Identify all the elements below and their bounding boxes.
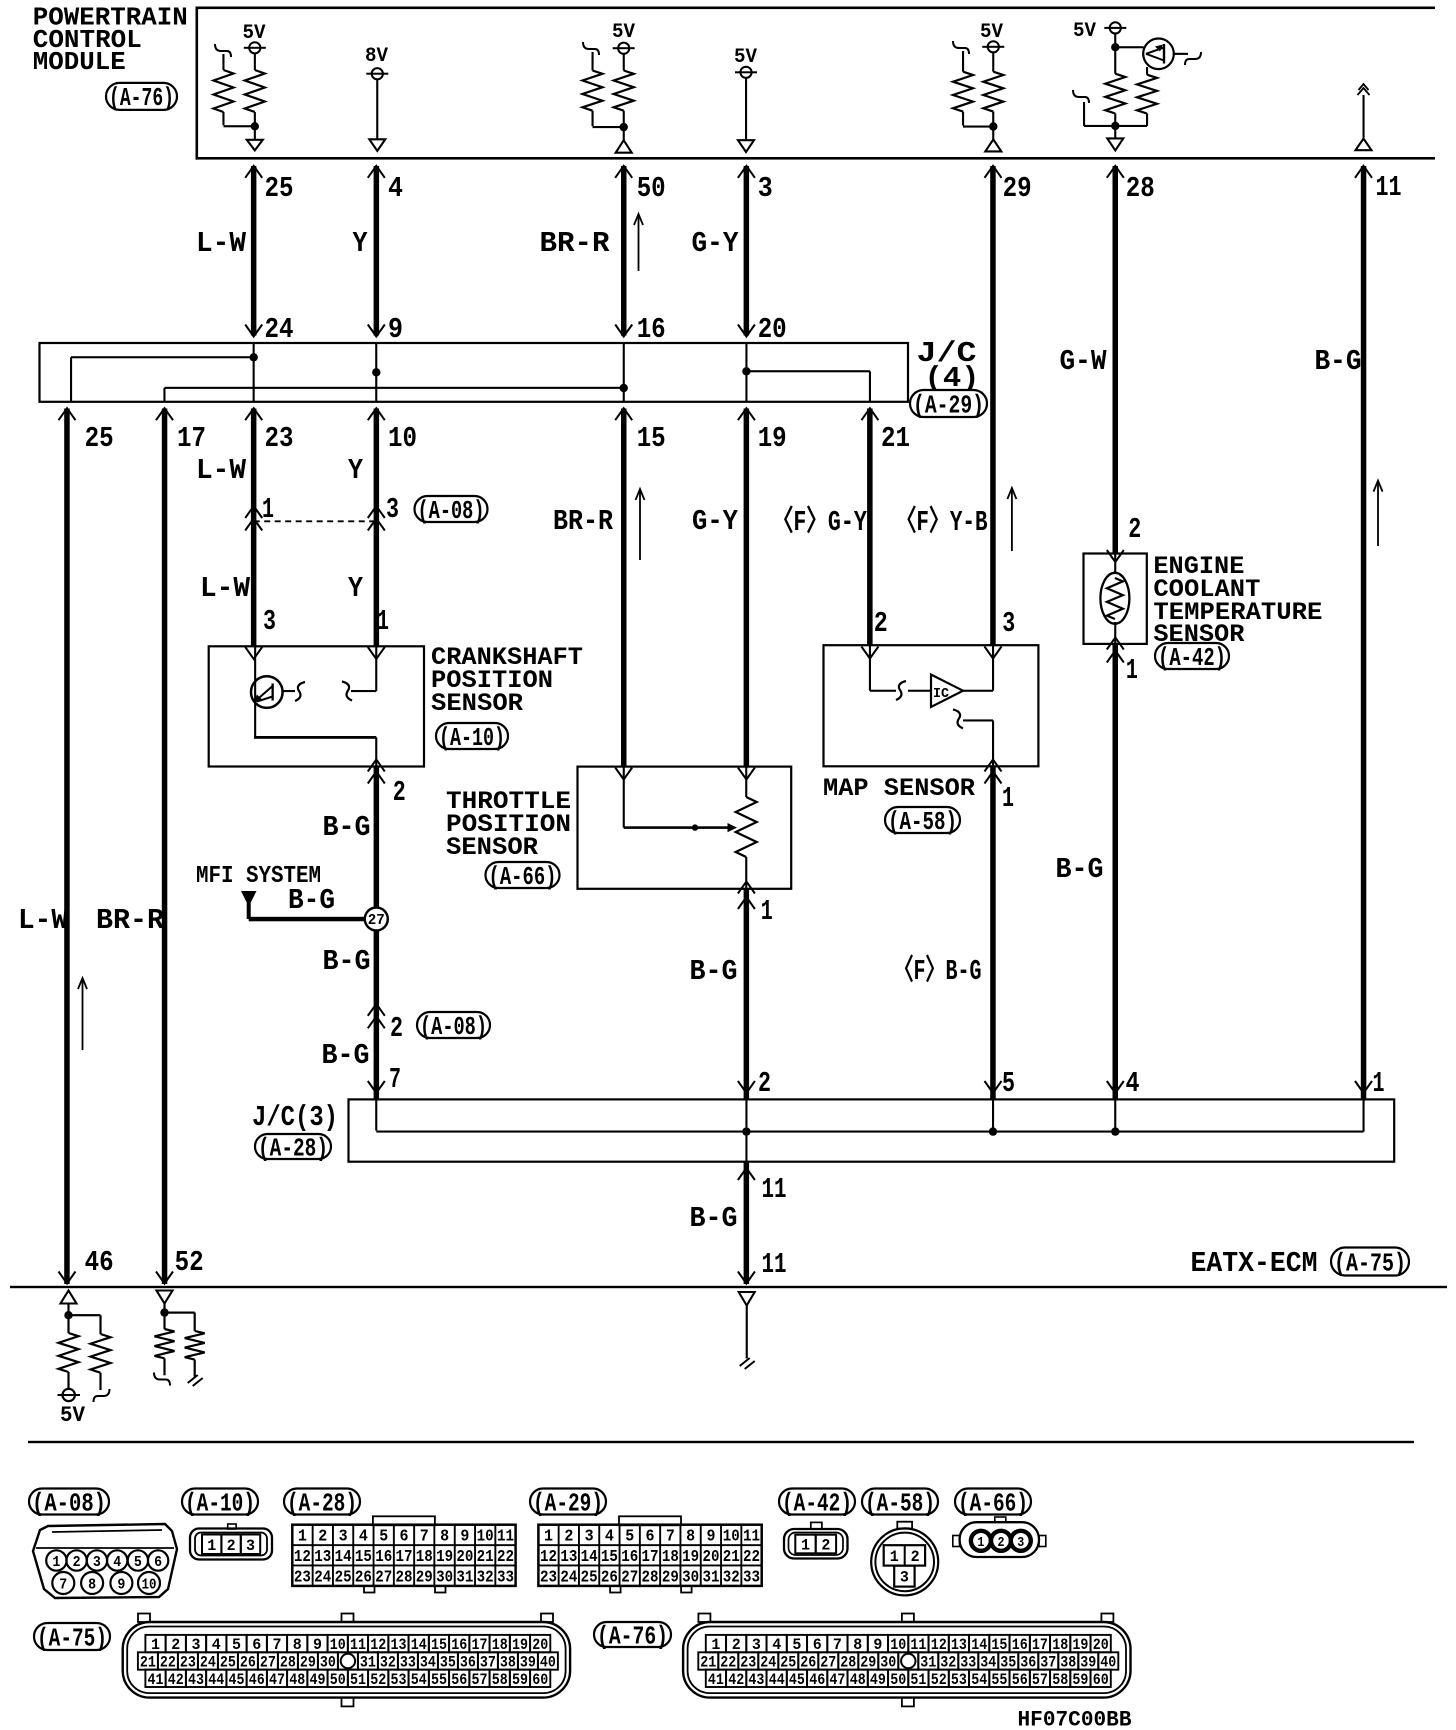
svg-text:31: 31 (456, 1569, 473, 1588)
svg-text:17: 17 (642, 1548, 659, 1567)
svg-text:MAP SENSOR: MAP SENSOR (823, 774, 975, 803)
svg-text:3: 3 (585, 1528, 594, 1547)
svg-text:58: 58 (1052, 1671, 1068, 1689)
svg-text:7: 7 (420, 1528, 429, 1547)
svg-text:5: 5 (1002, 1067, 1015, 1100)
svg-text:21: 21 (881, 422, 910, 455)
svg-text:6: 6 (400, 1528, 409, 1547)
svg-text:10: 10 (388, 422, 417, 455)
svg-text:19: 19 (682, 1548, 699, 1567)
svg-text:49: 49 (870, 1671, 886, 1689)
svg-text:25: 25 (220, 1654, 236, 1672)
svg-text:21: 21 (477, 1548, 494, 1567)
svg-text:37: 37 (1040, 1654, 1056, 1672)
svg-text:22: 22 (720, 1654, 736, 1672)
svg-text:25: 25 (265, 172, 294, 205)
svg-text:17: 17 (396, 1548, 413, 1567)
svg-text:2: 2 (393, 776, 406, 809)
svg-text:20: 20 (758, 313, 787, 346)
svg-text:15: 15 (355, 1548, 372, 1567)
svg-text:28: 28 (1126, 172, 1155, 205)
svg-text:(A-75): (A-75) (37, 1623, 107, 1653)
svg-text:44: 44 (208, 1671, 224, 1689)
svg-text:2: 2 (318, 1528, 327, 1547)
svg-text:50: 50 (637, 172, 666, 205)
svg-text:60: 60 (1093, 1671, 1109, 1689)
svg-text:3: 3 (386, 493, 399, 526)
svg-text:B-G: B-G (690, 1202, 738, 1235)
svg-text:43: 43 (748, 1671, 764, 1689)
svg-text:46: 46 (249, 1671, 265, 1689)
svg-text:1: 1 (298, 1528, 307, 1547)
svg-text:44: 44 (769, 1671, 785, 1689)
svg-text:23: 23 (294, 1569, 311, 1588)
svg-text:8V: 8V (365, 45, 388, 68)
svg-text:23: 23 (180, 1654, 196, 1672)
svg-text:11: 11 (743, 1528, 760, 1547)
svg-text:9: 9 (117, 1577, 125, 1594)
svg-text:55: 55 (431, 1671, 447, 1689)
svg-text:38: 38 (1060, 1654, 1076, 1672)
svg-text:26: 26 (240, 1654, 256, 1672)
svg-text:15: 15 (601, 1548, 618, 1567)
svg-text:5: 5 (379, 1528, 388, 1547)
svg-text:24: 24 (314, 1569, 331, 1588)
svg-text:1: 1 (801, 1536, 810, 1554)
svg-text:(A-58): (A-58) (888, 807, 957, 837)
svg-text:30: 30 (320, 1654, 336, 1672)
svg-text:28: 28 (840, 1654, 856, 1672)
svg-text:MODULE: MODULE (33, 48, 126, 77)
svg-text:2: 2 (564, 1528, 573, 1547)
svg-text:52: 52 (175, 1246, 204, 1279)
svg-text:25: 25 (335, 1569, 352, 1588)
svg-text:54: 54 (411, 1671, 427, 1689)
svg-text:24: 24 (760, 1654, 776, 1672)
svg-text:51: 51 (350, 1671, 366, 1689)
svg-text:25: 25 (780, 1654, 796, 1672)
svg-text:5V: 5V (60, 1403, 86, 1428)
svg-text:2: 2 (911, 1548, 920, 1566)
svg-text:8: 8 (686, 1528, 695, 1547)
svg-text:33: 33 (743, 1569, 760, 1588)
svg-text:22: 22 (497, 1548, 514, 1567)
svg-text:9: 9 (460, 1528, 469, 1547)
svg-text:5V: 5V (1073, 20, 1096, 43)
svg-text:B-G: B-G (288, 884, 335, 917)
svg-text:(A-42): (A-42) (782, 1488, 852, 1518)
svg-text:5: 5 (625, 1528, 634, 1547)
svg-text:27: 27 (368, 912, 385, 929)
svg-text:11: 11 (1376, 171, 1402, 204)
svg-text:2: 2 (1128, 513, 1141, 546)
svg-text:Y: Y (348, 454, 364, 487)
svg-text:32: 32 (477, 1569, 494, 1588)
svg-text:24: 24 (200, 1654, 216, 1672)
svg-text:(A-28): (A-28) (258, 1133, 328, 1163)
svg-text:SENSOR: SENSOR (431, 689, 523, 718)
svg-text:3: 3 (758, 172, 773, 205)
svg-text:1: 1 (1002, 782, 1014, 815)
svg-text:16: 16 (637, 313, 666, 346)
svg-text:(A-10): (A-10) (439, 723, 505, 753)
svg-text:4: 4 (359, 1528, 368, 1547)
svg-text:2: 2 (227, 1537, 236, 1555)
svg-text:27: 27 (260, 1654, 276, 1672)
svg-text:5V: 5V (734, 46, 757, 69)
svg-text:46: 46 (85, 1246, 114, 1279)
svg-text:(A-66): (A-66) (958, 1488, 1028, 1518)
svg-text:29: 29 (416, 1569, 433, 1588)
svg-text:39: 39 (520, 1654, 536, 1672)
svg-text:3: 3 (1017, 1535, 1024, 1551)
svg-text:24: 24 (265, 313, 294, 346)
svg-text:26: 26 (355, 1569, 372, 1588)
svg-text:57: 57 (1032, 1671, 1048, 1689)
svg-text:HF07C00BB: HF07C00BB (1018, 1708, 1132, 1730)
svg-text:30: 30 (682, 1569, 699, 1588)
svg-text:59: 59 (1072, 1671, 1088, 1689)
svg-text:(A-29): (A-29) (913, 390, 984, 420)
svg-text:2: 2 (821, 1536, 830, 1554)
svg-text:10: 10 (723, 1528, 740, 1547)
svg-text:G-Y: G-Y (692, 227, 740, 260)
svg-text:28: 28 (396, 1569, 413, 1588)
svg-text:3: 3 (263, 605, 276, 638)
svg-text:7: 7 (59, 1577, 67, 1594)
svg-text:13: 13 (560, 1548, 577, 1567)
svg-text:32: 32 (723, 1569, 740, 1588)
svg-text:56: 56 (1012, 1671, 1028, 1689)
svg-text:27: 27 (375, 1569, 392, 1588)
svg-text:3: 3 (93, 1554, 101, 1571)
svg-text:46: 46 (809, 1671, 825, 1689)
svg-text:29: 29 (300, 1654, 316, 1672)
svg-text:4: 4 (1126, 1067, 1140, 1100)
svg-text:37: 37 (480, 1654, 496, 1672)
svg-text:36: 36 (1020, 1654, 1036, 1672)
svg-text:48: 48 (289, 1671, 305, 1689)
svg-text:27: 27 (820, 1654, 836, 1672)
svg-text:56: 56 (451, 1671, 467, 1689)
svg-text:53: 53 (951, 1671, 967, 1689)
svg-text:J/C(3): J/C(3) (252, 1101, 338, 1134)
svg-text:26: 26 (800, 1654, 816, 1672)
svg-text:25: 25 (581, 1569, 598, 1588)
svg-text:9: 9 (388, 313, 403, 346)
svg-text:48: 48 (850, 1671, 866, 1689)
svg-text:B-G: B-G (690, 955, 738, 988)
svg-text:〈F〉Y-B: 〈F〉Y-B (896, 504, 988, 539)
svg-text:50: 50 (330, 1671, 346, 1689)
svg-text:29: 29 (860, 1654, 876, 1672)
svg-text:IC: IC (933, 686, 950, 702)
svg-text:5: 5 (134, 1554, 142, 1571)
svg-text:29: 29 (1003, 172, 1032, 205)
svg-text:2: 2 (73, 1554, 81, 1571)
svg-text:40: 40 (1100, 1654, 1116, 1672)
svg-text:(A-08): (A-08) (418, 496, 485, 526)
svg-text:49: 49 (310, 1671, 326, 1689)
svg-text:EATX-ECM: EATX-ECM (1191, 1247, 1318, 1280)
svg-text:35: 35 (440, 1654, 456, 1672)
svg-text:32: 32 (380, 1654, 396, 1672)
svg-text:58: 58 (492, 1671, 508, 1689)
svg-text:8: 8 (88, 1577, 96, 1594)
svg-text:(A-42): (A-42) (1158, 643, 1226, 673)
svg-text:3: 3 (900, 1569, 909, 1587)
svg-text:22: 22 (160, 1654, 176, 1672)
svg-text:31: 31 (920, 1654, 936, 1672)
svg-text:51: 51 (910, 1671, 926, 1689)
svg-text:16: 16 (621, 1548, 638, 1567)
svg-text:25: 25 (85, 422, 114, 455)
svg-text:24: 24 (560, 1569, 577, 1588)
svg-text:18: 18 (662, 1548, 679, 1567)
svg-text:4: 4 (388, 172, 403, 205)
svg-text:30: 30 (880, 1654, 896, 1672)
svg-text:1: 1 (544, 1528, 553, 1547)
svg-text:19: 19 (436, 1548, 453, 1567)
svg-text:(A-10): (A-10) (185, 1488, 255, 1518)
svg-text:Y: Y (353, 227, 369, 260)
svg-text:(A-58): (A-58) (865, 1488, 935, 1518)
svg-text:14: 14 (581, 1548, 598, 1567)
svg-text:(A-75): (A-75) (1334, 1248, 1406, 1278)
svg-text:15: 15 (637, 422, 666, 455)
svg-text:29: 29 (662, 1569, 679, 1588)
svg-text:23: 23 (540, 1569, 557, 1588)
svg-text:7: 7 (666, 1528, 675, 1547)
svg-text:1: 1 (207, 1537, 216, 1555)
svg-text:B-G: B-G (323, 811, 371, 844)
svg-text:9: 9 (707, 1528, 716, 1547)
svg-text:31: 31 (703, 1569, 720, 1588)
svg-text:BR-R: BR-R (96, 904, 165, 937)
svg-text:20: 20 (703, 1548, 720, 1567)
svg-text:SENSOR: SENSOR (446, 833, 538, 862)
svg-text:(A-08): (A-08) (32, 1488, 106, 1518)
svg-text:(A-28): (A-28) (287, 1488, 357, 1518)
svg-text:3: 3 (339, 1528, 348, 1547)
svg-text:23: 23 (265, 422, 294, 455)
svg-text:41: 41 (148, 1671, 164, 1689)
svg-text:20: 20 (456, 1548, 473, 1567)
svg-text:32: 32 (940, 1654, 956, 1672)
svg-text:4: 4 (605, 1528, 614, 1547)
svg-text:45: 45 (789, 1671, 805, 1689)
svg-text:L-W: L-W (196, 454, 247, 487)
svg-text:11: 11 (762, 1248, 787, 1281)
svg-text:1: 1 (977, 1535, 984, 1551)
svg-text:BR-R: BR-R (553, 505, 614, 538)
svg-text:10: 10 (142, 1577, 157, 1594)
svg-text:38: 38 (500, 1654, 516, 1672)
svg-text:1: 1 (890, 1548, 899, 1566)
svg-text:6: 6 (646, 1528, 655, 1547)
svg-text:L-W: L-W (196, 227, 247, 260)
svg-text:45: 45 (229, 1671, 245, 1689)
svg-text:52: 52 (931, 1671, 947, 1689)
svg-text:36: 36 (460, 1654, 476, 1672)
svg-text:57: 57 (472, 1671, 488, 1689)
svg-text:17: 17 (177, 422, 206, 455)
svg-text:3: 3 (246, 1537, 255, 1555)
svg-text:G-Y: G-Y (692, 505, 739, 538)
svg-text:3: 3 (1002, 607, 1015, 640)
svg-text:〈F〉B-G: 〈F〉B-G (894, 953, 982, 988)
svg-text:(A-76): (A-76) (597, 1621, 668, 1651)
svg-text:21: 21 (723, 1548, 740, 1567)
svg-text:1: 1 (377, 605, 389, 638)
svg-text:〈F〉G-Y: 〈F〉G-Y (772, 504, 868, 539)
svg-text:18: 18 (416, 1548, 433, 1567)
svg-text:33: 33 (400, 1654, 416, 1672)
svg-text:28: 28 (280, 1654, 296, 1672)
svg-text:21: 21 (700, 1654, 716, 1672)
svg-text:35: 35 (1000, 1654, 1016, 1672)
svg-text:12: 12 (540, 1548, 557, 1567)
svg-text:60: 60 (532, 1671, 548, 1689)
svg-text:34: 34 (980, 1654, 996, 1672)
svg-text:33: 33 (497, 1569, 514, 1588)
svg-text:31: 31 (360, 1654, 376, 1672)
svg-text:BR-R: BR-R (540, 227, 611, 260)
svg-text:(A-66): (A-66) (489, 862, 557, 892)
svg-text:50: 50 (890, 1671, 906, 1689)
svg-text:2: 2 (998, 1535, 1005, 1551)
svg-text:19: 19 (758, 422, 787, 455)
svg-text:13: 13 (314, 1548, 331, 1567)
svg-text:4: 4 (113, 1554, 121, 1571)
svg-text:(A-29): (A-29) (533, 1488, 603, 1518)
svg-text:L-W: L-W (18, 904, 69, 937)
svg-text:11: 11 (762, 1173, 787, 1206)
svg-text:55: 55 (991, 1671, 1007, 1689)
svg-text:(A-76): (A-76) (109, 83, 174, 113)
svg-text:33: 33 (960, 1654, 976, 1672)
svg-text:52: 52 (370, 1671, 386, 1689)
svg-text:B-G: B-G (1315, 345, 1362, 378)
svg-text:Y: Y (348, 572, 364, 605)
svg-text:1: 1 (52, 1554, 60, 1571)
svg-text:22: 22 (743, 1548, 760, 1567)
svg-text:23: 23 (740, 1654, 756, 1672)
svg-text:41: 41 (708, 1671, 724, 1689)
svg-text:16: 16 (375, 1548, 392, 1567)
svg-text:B-G: B-G (323, 945, 371, 978)
svg-text:40: 40 (540, 1654, 556, 1672)
svg-text:28: 28 (642, 1569, 659, 1588)
svg-text:5V: 5V (612, 21, 635, 44)
svg-text:26: 26 (601, 1569, 618, 1588)
svg-text:B-G: B-G (322, 1039, 370, 1072)
svg-text:42: 42 (728, 1671, 744, 1689)
svg-text:1: 1 (1126, 654, 1138, 687)
svg-text:L-W: L-W (200, 572, 251, 605)
svg-text:42: 42 (168, 1671, 184, 1689)
svg-text:(A-08): (A-08) (420, 1012, 487, 1042)
svg-text:1: 1 (1373, 1067, 1385, 1100)
svg-text:53: 53 (391, 1671, 407, 1689)
svg-text:34: 34 (420, 1654, 436, 1672)
svg-text:47: 47 (829, 1671, 845, 1689)
svg-text:7: 7 (389, 1063, 401, 1096)
svg-text:6: 6 (154, 1554, 162, 1571)
svg-text:39: 39 (1080, 1654, 1096, 1672)
svg-text:54: 54 (971, 1671, 987, 1689)
svg-text:27: 27 (621, 1569, 638, 1588)
svg-text:2: 2 (390, 1012, 403, 1045)
svg-text:43: 43 (188, 1671, 204, 1689)
svg-text:12: 12 (294, 1548, 311, 1567)
svg-text:47: 47 (269, 1671, 285, 1689)
svg-text:2: 2 (758, 1067, 771, 1100)
svg-text:B-G: B-G (1056, 853, 1104, 886)
svg-text:21: 21 (140, 1654, 156, 1672)
svg-text:14: 14 (335, 1548, 352, 1567)
svg-text:1: 1 (761, 895, 773, 928)
svg-text:2: 2 (874, 607, 888, 640)
svg-text:59: 59 (512, 1671, 528, 1689)
svg-text:11: 11 (497, 1528, 514, 1547)
svg-text:8: 8 (440, 1528, 449, 1547)
svg-text:G-W: G-W (1060, 345, 1108, 378)
svg-text:10: 10 (477, 1528, 494, 1547)
svg-text:30: 30 (436, 1569, 453, 1588)
